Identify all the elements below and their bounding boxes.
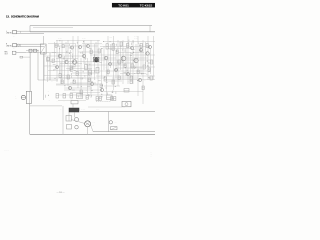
jack MIC ring [21,95,25,99]
filter FL1 slash [41,45,46,53]
wire CN1 lead [23,56,31,58]
wire vertical run [117,40,119,86]
resistor R212 [59,74,61,78]
wire horizontal run [100,46,150,48]
resistor R215 [104,77,106,81]
wire motor drop 2 [68,112,70,121]
wire horizontal run [70,92,100,94]
node junction dots [132,48,135,51]
wire vertical run [101,48,103,92]
wire horizontal run [130,66,155,68]
transistor Q901 [75,118,79,122]
node head junction [38,50,39,51]
resistor R233 [47,58,50,61]
wire vertical run [147,36,149,80]
wire horizontal run [90,54,155,56]
wire vertical run [125,48,127,76]
wire horizontal run [108,48,132,50]
wire horizontal run [64,87,92,89]
wire motor drop 1 [72,104,74,108]
resistor R213 [67,75,69,79]
transistor Q209 [121,56,126,61]
motor M1 body [85,121,91,127]
resistor R206 [106,44,108,49]
wire filter feed [43,36,45,44]
wire J103 lead [16,52,26,54]
svg-text:— 18 —: — 18 — [56,192,65,194]
transistor Q201 [58,54,62,58]
wire vertical run [153,36,155,80]
transistor Q211 [146,52,150,56]
wire vertical run [142,40,144,104]
wire vertical run [113,36,115,90]
relay RY1 inner wall [28,91,30,103]
wire vertical run [60,62,62,84]
resistor R205 [96,68,99,74]
resistor R246 [100,84,102,88]
wire vertical run [132,40,134,84]
wire vertical run [103,46,105,70]
resistor R244 [73,80,75,84]
wire horizontal run [118,52,144,54]
wire vertical run [115,54,117,78]
wire motor drop 4 [62,106,64,134]
wire horizontal run [100,59,152,61]
wire vertical run [85,44,87,60]
wire horizontal run [60,63,82,65]
resistor R251 [124,64,126,68]
wire horizontal run [96,75,155,77]
wire J101 tie [19,31,21,33]
wire head row mid [26,52,56,54]
resistor R222 [99,97,101,101]
wire second top rail [33,27,73,29]
transistor Q204 [70,46,73,49]
svg-text:LINE IN: LINE IN [6,45,12,47]
svg-text:OUT: OUT [5,53,8,55]
wire horizontal run [124,57,148,59]
svg-text:TC-K61S: TC-K61S [140,4,153,8]
resistor R203 [85,65,88,70]
svg-text:·· ····: ·· ···· [134,39,138,41]
resistor R204 [89,70,92,75]
wire horizontal run [55,45,98,47]
transistor Q212 [149,46,152,49]
resistor R236 [77,94,83,99]
transistor Q205 [78,45,81,48]
wire vertical run [56,40,58,82]
wire horizontal run [44,75,90,77]
wire vertical run [97,40,99,96]
wire horizontal run [44,65,80,67]
wire horizontal run [58,94,110,96]
wire vertical run [54,42,56,60]
transistor Q218 [100,88,103,91]
transistor Q203 [72,60,76,64]
svg-text:LINE IN: LINE IN [6,33,12,35]
wire filter drop [43,54,45,100]
transistor Q222 [109,63,112,66]
wire vertical run [87,58,89,96]
wire horizontal run [46,61,94,63]
wire bottom bus 2 [93,131,155,133]
svg-text:·· ····: ·· ···· [96,110,100,112]
wire head row top [26,49,38,51]
wire J102 bottom [17,46,45,48]
transistor Q214 [114,68,117,71]
wire horizontal run [70,82,96,84]
wire vertical run [110,44,112,68]
wire horizontal run [78,51,100,53]
wire vertical run [140,48,142,74]
relay RY1 box [26,91,31,103]
jack J101 [13,30,17,33]
wire left drop D [49,53,51,80]
resistor R248 [130,80,132,84]
resistor R202 [62,45,64,48]
resistor R230 [86,96,88,100]
svg-text:R: R [6,44,9,46]
transistor Q223 [131,47,134,50]
wire vertical run [127,36,129,84]
wire bottom bus [30,133,155,135]
transistor Q219 [139,48,142,51]
transistor Q221 [82,54,85,57]
model tab black band [112,3,155,7]
wire vertical run [59,46,61,74]
wire vertical run [95,42,97,56]
wire vertical run [64,58,66,84]
wire horizontal run [48,70,96,72]
wire horizontal run [104,41,155,43]
transistor Q217 [68,86,71,89]
resistor R223 [111,97,113,101]
wire horizontal run [66,68,92,70]
wire vertical run [122,40,124,84]
resistor R208 [120,42,122,46]
wire horizontal run [46,77,104,79]
resistor R250 [107,70,109,74]
wire horizontal run [44,55,84,57]
jack J103 [12,51,16,54]
resistor R221 [96,97,98,101]
wire horizontal run [64,89,100,91]
wire horizontal run [56,83,100,85]
resistor R226 [130,76,132,80]
wire left drop A [29,53,31,92]
wire horizontal run [104,91,143,93]
wire mid bus [80,111,155,113]
transistor Q220 [56,66,59,69]
svg-text:L: L [6,31,10,33]
resistor R247 [118,76,120,80]
jack J102 ring [17,44,19,46]
motor M1 detail [85,122,90,125]
lamp PL901 [109,121,112,124]
transistor Q213 [90,82,93,85]
resistor R224 [114,97,116,101]
wire horizontal run [82,43,102,45]
svg-text:· ····: · ···· [109,38,113,40]
resistor R209 [127,44,129,48]
wire vertical run [75,44,77,66]
fuse F901 detail [111,127,116,130]
svg-text:·· ····: ·· ···· [58,38,62,40]
resistor R228 [63,94,66,99]
resistor R217 [131,64,133,68]
resistor R210 [140,44,142,48]
wire dashed link [96,101,111,103]
resistor R218 [143,65,145,69]
wire J101 top [17,30,31,32]
wire horizontal run [110,62,134,64]
wire left drop C [43,53,45,81]
filter FL1 box [40,44,46,54]
svg-text:13. SCHEMATIC DIAGRAM: 13. SCHEMATIC DIAGRAM [6,15,39,19]
wire motor link [71,120,85,124]
wire horizontal run [116,67,142,69]
wire vertical run [94,44,96,80]
wire vertical run [145,42,147,66]
wire vertical run [70,50,72,72]
wire bus bracket [29,26,31,32]
wire horizontal run [106,80,122,82]
wire vertical run [83,40,85,64]
wire horizontal run [72,72,96,74]
jack J102 [13,44,17,47]
wire horizontal run [56,58,78,60]
transistor Q208 [104,56,107,59]
wire vertical run [137,36,139,96]
counter S901 coil [125,103,128,106]
resistor R239 [90,50,92,54]
connector CN1 [20,56,23,58]
wire vertical run [61,40,63,84]
resistor R211 [146,44,148,48]
wire vertical run [106,60,108,95]
resistor R241 [137,70,139,74]
wire vertical run [80,58,82,98]
wire vertical run [88,62,90,86]
wire horizontal run [48,43,76,45]
wire J102 tie [19,44,21,46]
resistor R238 [70,66,72,70]
wire vertical run [72,36,74,70]
resistor R207 [112,44,114,50]
wire vertical run [90,40,92,98]
wire vertical run [135,44,137,68]
wire motor drop 5 [87,127,89,135]
jack MIC pin [22,97,26,99]
resistor R245 [88,78,90,82]
wire vertical run [67,40,69,86]
wire motor drop 3 [74,112,76,118]
wire horizontal run [120,73,146,75]
wire horizontal run [94,57,116,59]
wire J101 bottom [17,32,45,34]
wire vertical run [150,48,152,74]
resistor R232 [98,49,100,53]
wire vertical run [130,52,132,78]
wire horizontal run [60,77,86,79]
wire left drop E [29,104,31,135]
wire vertical run [65,42,67,58]
wire vertical run [107,36,109,76]
wire vertical run [77,36,79,88]
wire horizontal run [104,79,155,81]
wire J102 top [17,43,45,45]
resistor R237 [52,59,54,63]
capacitor C130 [71,101,78,104]
wire left return [38,79,58,81]
resistor R225 [150,76,152,80]
wire left drop B [37,50,39,80]
transistor Q230 dark cluster [94,57,99,62]
transistor Q206 [86,44,89,47]
resistor R219 [151,60,153,64]
svg-text:·· ·····: ·· ····· [81,110,85,112]
resistor R102 [34,49,37,52]
resistor R214 [76,72,78,76]
transistor Q202 [65,60,68,63]
resistor R234 [107,95,113,100]
wire horizontal run [52,52,72,54]
wire horizontal run [88,106,122,108]
wire main top bus [30,31,155,33]
transistor Q216 [138,78,141,81]
transistor Q215 [126,72,129,75]
resistor R240 [116,50,118,54]
resistor R229 [70,94,73,99]
svg-text:TC-K61: TC-K61 [118,4,129,8]
wire horizontal run [56,40,100,42]
transistor Q902 [75,125,79,129]
fuse F901 box [111,127,118,130]
svg-text:··· ···· ··: ··· ···· ·· [4,151,9,153]
capacitor C902 [67,125,72,130]
wire vertical run [47,56,49,82]
resistor R249 [142,86,144,90]
transistor Q207 [94,58,98,62]
wire lamp drop [108,112,110,132]
svg-text:·· ····: ·· ···· [82,38,86,40]
resistor R227 [56,94,59,99]
node head junction 2 [44,52,45,53]
wire top bus B+ [30,25,152,27]
resistor R235 [124,89,129,93]
diode D901 [66,116,72,122]
resistor R201 [55,44,57,47]
resistor R101 [29,49,32,52]
wire horizontal run [100,70,148,72]
resistor R242 [148,68,150,72]
resistor R220 [80,90,82,94]
resistor R216 [112,80,114,84]
wire horizontal run [112,77,138,79]
wire motor feed [30,105,62,107]
wire horizontal run [104,85,120,87]
wire stub noise [71,71,73,73]
wire right stub 1 [149,26,151,32]
wire horizontal run [56,84,98,86]
wire horizontal run [86,64,126,66]
counter S901 box [122,101,131,106]
transformer T1 dark box [69,108,79,112]
wire motor out [91,125,93,132]
transistor Q210 [134,58,138,62]
wire vertical run [120,46,122,70]
resistor R243 [61,80,63,84]
svg-text:·· ····: ·· ···· [134,36,138,38]
resistor R231 [118,60,120,64]
wire horizontal run [58,99,86,101]
